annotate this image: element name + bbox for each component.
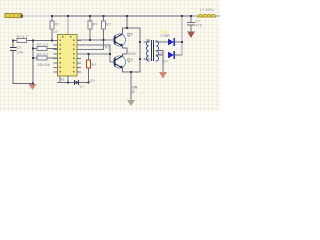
svg-text:Q?: Q? (127, 58, 133, 63)
wire row2 left (33, 48, 58, 50)
wire W4 row 54 (77, 53, 110, 55)
resistor R4 hang at x103.5 (102, 16, 106, 50)
wire W1 row 40 right of IC (77, 39, 114, 41)
wire x110 vertical to Q2 base (110, 45, 114, 62)
IC U1 body (58, 35, 78, 77)
svg-text:104: 104 (17, 51, 23, 55)
svg-text:R? 4.7: R? 4.7 (37, 53, 48, 57)
diode D1 (168, 39, 174, 46)
svg-text:T?: T? (146, 39, 150, 43)
svg-text:R?: R? (105, 46, 110, 50)
background with grid (0, 0, 220, 111)
wire Q1 collector up (123, 28, 141, 34)
resistor R3 hang at x90 (88, 16, 92, 40)
svg-text:Y?: Y? (79, 85, 84, 89)
svg-text:D?: D? (158, 52, 163, 56)
wire Q1 emitter to Q2 collector (123, 46, 128, 56)
transistor Q2 (113, 56, 125, 68)
svg-text:R? 4.7: R? 4.7 (37, 43, 48, 47)
inductor L1 top-right (194, 14, 220, 17)
resistor R7 vertical mid (87, 54, 91, 83)
crystal Y1 (75, 81, 79, 85)
svg-text:D?: D? (163, 60, 168, 64)
wire bottom row under IC (58, 82, 89, 84)
IC pin number marks (60, 36, 75, 73)
svg-text:10k: 10k (44, 63, 50, 67)
svg-text:U?: U? (53, 30, 58, 34)
resistor R2 hang at x52 (50, 16, 54, 41)
svg-text:R? 4.7: R? 4.7 (17, 35, 28, 39)
svg-text:10k: 10k (37, 63, 43, 67)
resistor R6 on row3 (37, 56, 47, 60)
wire x33 vertical (32, 41, 34, 90)
wire Q2 emitter bottom (123, 59, 141, 72)
svg-text:8050: 8050 (128, 52, 136, 56)
transistor Q1 (113, 34, 125, 46)
svg-text:C?: C? (90, 79, 95, 83)
wire D1 row (162, 41, 168, 43)
wire top rail (23, 15, 53, 17)
IC pin stubs right (77, 41, 81, 73)
capacitor C1 on left column (11, 48, 17, 51)
wire left input column (13, 41, 33, 84)
svg-text:L? 100u: L? 100u (200, 8, 214, 12)
resistor R5 on row2 (37, 47, 47, 51)
svg-text:SG: SG (59, 78, 65, 82)
transformer T1 (144, 41, 163, 62)
center tap ground (162, 51, 164, 73)
svg-text:D: D (132, 90, 135, 94)
diode D2 (168, 52, 174, 59)
svg-text:GN: GN (132, 86, 138, 90)
wire vertical drop to IC top (67, 16, 69, 35)
wire row1 left (13, 40, 58, 42)
capacitor C2 top right (188, 16, 195, 32)
svg-text:R?: R? (106, 23, 111, 27)
IC pin stubs left (54, 41, 58, 73)
ground arrow left (29, 84, 37, 90)
resistor R1 on row1 (17, 39, 27, 43)
faint yellow label above transformer (161, 31, 168, 34)
wire row3 left (33, 57, 58, 59)
svg-text:470: 470 (196, 24, 202, 28)
svg-text:Q?: Q? (127, 32, 133, 37)
wire D1 out (175, 41, 182, 43)
ground port bottom x131 (130, 72, 132, 100)
wire W2 row 45 (77, 44, 110, 46)
svg-text:C?: C? (17, 46, 22, 50)
wire x140 primary vertical (139, 28, 141, 72)
svg-text:R?: R? (93, 23, 98, 27)
svg-text:D?: D? (165, 34, 170, 38)
wire D2 out and join (175, 54, 182, 56)
wire rail drop x127 (126, 16, 128, 28)
svg-text:R?: R? (92, 63, 97, 67)
junction dots (12, 15, 192, 85)
IC bottom pin stubs (60, 76, 68, 83)
svg-text:R?: R? (55, 23, 60, 27)
ground arrow top right (187, 32, 195, 39)
fuse F1 top-left (5, 13, 23, 18)
wire W3 row 49.5 (77, 49, 104, 51)
